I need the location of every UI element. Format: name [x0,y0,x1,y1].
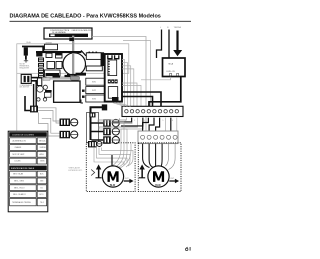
lamp L2 connector [60,131,71,139]
wire: capacitor leads [31,77,40,79]
relay K5 [56,62,62,69]
page number [186,247,191,251]
ground arrow (TIERRA) [173,31,182,57]
black pad 2 [65,75,71,77]
svg-text:DIAGRAMA DE CABLEADO - Para KV: DIAGRAMA DE CABLEADO - Para KVWC958KSS M… [10,14,161,20]
wire: L bend [76,73,87,75]
svg-text:NEG - ROJO: NEG - ROJO [14,187,25,189]
dashed blower box left [86,143,135,192]
frame around lamp wires [87,113,99,143]
svg-text:TERMINALES TIERRA: TERMINALES TIERRA [12,201,31,204]
arrow up M1 [96,164,102,177]
wire: power box to terminal strip [149,77,181,106]
svg-text:DE LA CAMPANA: DE LA CAMPANA [52,31,66,34]
wire: power box gray lead [141,77,171,80]
arrow up M2 [139,164,145,177]
pcb box (top) [86,53,101,60]
connector J3 [30,106,38,113]
capacitor C1 [20,74,33,88]
enclosure (gray hood outline) [17,44,129,74]
svg-text:BCO: BCO [40,194,44,196]
lamp L2 [71,131,78,138]
wires into right motor [143,144,163,168]
gray wires strip to lamps [99,118,143,129]
lamp L4 connector [103,128,111,136]
svg-text:CABLE DE LA CASA 120V: CABLE DE LA CASA 120V [72,29,93,32]
lamp L5 [112,136,119,143]
svg-text:NEG-BL: NEG-BL [39,140,46,142]
gray wires right of control box [122,60,141,107]
svg-text:GRI: GRI [40,181,44,183]
wires into left motor [94,118,138,168]
control box U1 [105,54,122,102]
arrow right M1 [124,178,134,183]
svg-text:EXTERIOR OPC.: EXTERIOR OPC. [69,170,84,172]
svg-text:CHASIS: CHASIS [15,146,22,149]
svg-text:1 2 3 4 5 6: 1 2 3 4 5 6 [125,120,177,122]
relay K1 [46,53,52,57]
wire: connector gray fan [38,108,59,123]
terminal strip TB1 [122,106,183,116]
black bar cluster [45,90,52,92]
terminal strip TB2 [138,131,178,144]
wire branch to lamp L3 [92,122,104,124]
svg-text:LIVE - IN: LIVE - IN [167,71,176,73]
comb connector stack J1 [38,58,44,78]
terminal bar TB3 [45,70,61,77]
enclosure left wall [16,73,18,130]
main board box [54,81,80,102]
wire: strip to lower strip (black) [143,118,171,131]
svg-text:RE-AJUSTE: RE-AJUSTE [20,67,30,70]
svg-text:AZUL: AZUL [40,153,45,156]
wire: under circle [67,74,86,76]
svg-text:NEG - BLANCO: NEG - BLANCO [13,193,26,196]
rows part 2 [10,171,47,206]
svg-text:NEG - GRIS: NEG - GRIS [14,181,25,183]
bus junction block [36,51,42,57]
header 1 [9,132,47,137]
connector blob row [108,79,118,83]
lamp L4 [112,128,119,135]
svg-text:ALIMENTACION: ALIMENTACION [13,139,27,142]
pads between [82,90,85,92]
cable bar [49,34,88,37]
wire: bus to control box [101,52,105,66]
wires to left lamps [39,113,60,137]
svg-text:SW3: SW3 [92,98,96,100]
wire N [168,30,170,59]
switch box row [86,78,105,102]
note: optional exterior blower [69,167,84,173]
lamp L1 [71,119,78,126]
power bus segment 2 [87,52,101,54]
svg-text:LUCES: LUCES [15,161,22,163]
svg-text:IDENTIFICACION CABLE: IDENTIFICACION CABLE [11,167,35,170]
svg-text:BLW: BLW [110,184,116,187]
dashed blower box right [138,143,181,192]
gray slants below control box [113,103,131,107]
gray wire bus mid [47,76,80,79]
arrow right M2 [169,178,179,183]
wire: hook [25,96,30,111]
bus switch slash [81,50,86,55]
svg-text:CAJA: CAJA [26,41,31,44]
trunk connector [102,104,107,110]
wire L [157,30,162,59]
svg-text:RJ: RJ [41,187,43,189]
wire branch to lamp L4 [92,131,104,133]
power bus [36,51,82,53]
svg-text:CODIGO DE COLORES: CODIGO DE COLORES [12,135,34,137]
svg-text:DEL MOTOR: DEL MOTOR [20,87,30,89]
svg-text:TE-1: TE-1 [40,202,44,204]
wire: feed to plug [22,46,44,48]
lamp L3 [112,119,119,126]
thermal connector left box [88,141,102,147]
plug connector P1 [24,47,29,62]
wire: black feed 1 [122,92,161,106]
svg-text:BLW: BLW [155,184,161,187]
wire: strip to lamp area (black) [113,118,143,126]
black pad 1 [53,75,61,77]
wire branch to lamp L5 [92,139,104,141]
wire: black feed 2 [122,97,153,107]
slot connector J2 [37,78,41,86]
legend table [8,131,48,212]
svg-text:NEG / BLAN: NEG / BLAN [13,173,24,176]
lamp trunk wire [91,107,106,140]
fan wheel circle [63,53,86,76]
gray pad small [43,78,50,81]
black bar in TB3 [46,73,60,76]
svg-text:MOTOR VENT.: MOTOR VENT. [13,154,26,156]
lamp L5 connector [103,136,111,144]
gray connector pad [71,76,80,80]
rows part 1 [10,138,47,164]
svg-text:SW2: SW2 [92,90,96,92]
wire: black drop into motor M1 [111,155,113,167]
gray drops from strip [166,118,177,131]
junction box (house wiring) [44,28,93,39]
small white box cluster [44,92,51,97]
svg-text:TIERRA: TIERRA [174,26,182,29]
header 2 [9,166,47,171]
small connector dark [89,113,95,118]
relay K2 [56,53,63,58]
title rule [10,20,192,22]
pcb box (mid) [86,66,102,71]
title [10,14,161,20]
relay K4 [47,62,55,69]
switch box S1 [45,44,58,50]
wire: twin verticals [33,84,35,106]
svg-text:SW1: SW1 [92,82,96,84]
pointer chevron [91,170,94,176]
motor M1 [102,166,123,187]
wire: gray feed to right [92,37,146,131]
svg-text:VERDE: VERDE [40,147,47,149]
squiggle motor-lead cluster [37,85,48,101]
power terminal box U2 [163,58,186,77]
motor M2 [148,166,169,187]
note text [20,64,30,70]
lamp L3 connector [103,119,111,127]
svg-text:MCA: MCA [169,63,174,66]
wire: junction box drop (gray) [69,36,74,77]
lamp L1 connector [60,119,71,127]
